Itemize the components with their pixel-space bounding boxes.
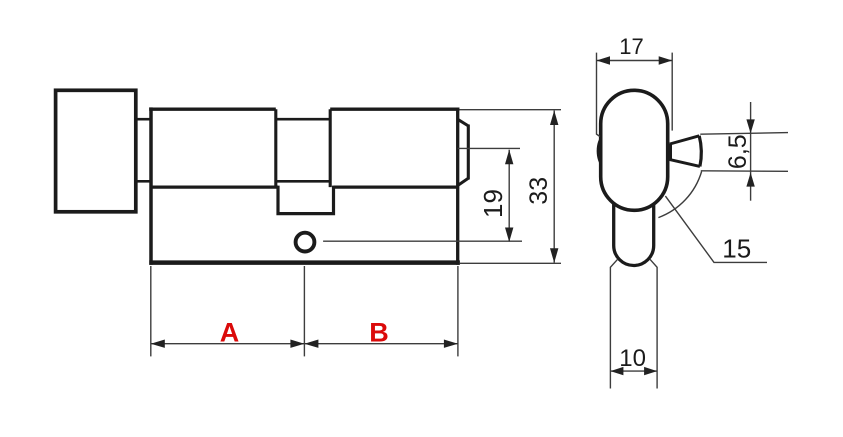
cylinder tip face: [467, 125, 470, 180]
dimension 10 right arrow: [644, 367, 657, 375]
dimension 10 line: [610, 370, 657, 372]
cam slot left edge: [274, 109, 277, 187]
dimension 17 right extension line: [671, 53, 673, 131]
cylinder body left edge: [149, 107, 153, 264]
screw hole: [296, 233, 315, 252]
dimension A right arrow: [290, 340, 304, 348]
screw hole leader line: [323, 240, 522, 242]
dimension 6,5 bottom extension line: [701, 170, 788, 173]
dimension 33 top extension line: [460, 109, 562, 111]
svg-text:10: 10: [619, 345, 646, 372]
svg-text:B: B: [369, 318, 389, 348]
cam fan right face arc: [699, 136, 701, 167]
svg-text:17: 17: [619, 34, 643, 59]
left plug bottom edge: [151, 186, 278, 189]
svg-text:A: A: [220, 318, 240, 348]
dimension B right extension line: [457, 266, 459, 356]
radius 15 arc: [658, 172, 701, 218]
dimension 17 left extension line: [597, 53, 600, 137]
right thin continuation line: [650, 259, 657, 388]
dimension B left arrow: [304, 340, 318, 348]
thumbturn knob: [56, 90, 136, 212]
plug axis line: [458, 147, 520, 149]
dimension 6,5 top extension line: [700, 133, 788, 135]
cam fan bottom edge: [670, 160, 700, 167]
left thin continuation line: [610, 259, 617, 388]
knob neck bottom line: [136, 180, 151, 183]
dimension 17 left arrow: [597, 56, 611, 64]
cam fan base: [669, 144, 672, 161]
cylinder tip chamfer top: [458, 119, 469, 126]
right plug bottom edge: [334, 186, 458, 189]
dimension 33 arrow down: [550, 248, 558, 262]
leader line 15: [665, 196, 767, 262]
svg-text:6,5: 6,5: [724, 134, 752, 169]
body bottom edge: [149, 260, 460, 265]
svg-text:15: 15: [722, 234, 751, 264]
dimension 17 right arrow: [659, 56, 673, 64]
front view stadium body: [601, 90, 668, 210]
dimension 10 left arrow: [610, 367, 623, 375]
right plug top edge: [330, 107, 459, 110]
left plug top edge: [149, 107, 276, 110]
front view left side bulge: [597, 135, 603, 167]
dimension 19 line: [508, 150, 510, 242]
dimension A/B middle extension line: [303, 266, 305, 356]
cylinder body right edge: [456, 108, 459, 265]
cam tab: [278, 186, 334, 214]
cam fan top edge: [670, 136, 699, 144]
dimension B right arrow: [444, 340, 458, 348]
cylinder tip chamfer bottom: [458, 178, 469, 185]
cam hub bottom line: [276, 180, 330, 183]
dimension 6,5 line: [750, 102, 752, 201]
dimension 19 arrow down: [505, 228, 513, 243]
dimension 6,5 arrow up: [746, 173, 754, 187]
dimension 17 line: [597, 60, 673, 62]
dimension A left extension line: [150, 266, 152, 356]
dimension 19 arrow up: [505, 150, 513, 165]
dimension 33 arrow up: [550, 111, 558, 126]
dimension A left arrow: [151, 340, 165, 348]
bottom extension of front view: [614, 203, 654, 265]
svg-text:33: 33: [525, 177, 553, 205]
dimension 33 line: [553, 111, 555, 263]
dimension 6,5 arrow down: [746, 119, 754, 133]
cam hub top line: [276, 118, 330, 121]
svg-text:19: 19: [478, 189, 508, 218]
knob neck top line: [136, 118, 151, 121]
dimension 33 bottom extension line: [460, 262, 562, 264]
dimension A/B line: [151, 343, 458, 345]
cam slot right edge: [329, 109, 332, 187]
